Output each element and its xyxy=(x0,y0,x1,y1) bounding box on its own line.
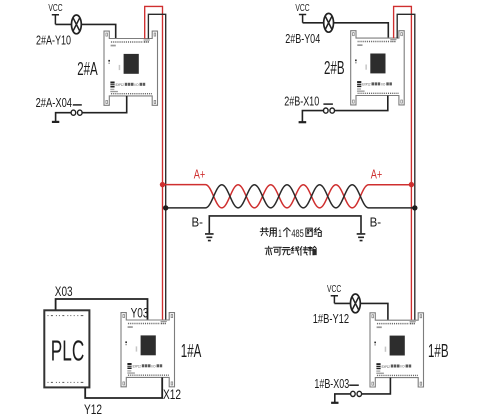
junction node B- right xyxy=(412,205,417,210)
svg-text:485: 485 xyxy=(291,228,303,240)
svg-text:X03: X03 xyxy=(55,284,73,299)
earth ground (right of shield) xyxy=(357,234,366,241)
junction node B- left xyxy=(163,205,168,210)
svg-text:1#A: 1#A xyxy=(181,340,202,361)
svg-text:2#A-X04: 2#A-X04 xyxy=(36,95,72,110)
ground (1#B-X03) xyxy=(331,402,338,404)
wire VCC to lamp 2#A-Y10 xyxy=(55,23,71,25)
svg-text:1#B: 1#B xyxy=(428,340,449,361)
earth ground (left of shield) xyxy=(205,234,214,241)
svg-text:Y12: Y12 xyxy=(84,402,102,417)
wire lamp to module 1#B terminal Y12 xyxy=(360,303,388,320)
wire RS485 B- from 2#B (black) down right bus xyxy=(397,14,415,320)
wire VCC to lamp 1#B-Y12 xyxy=(334,302,350,304)
svg-text:2#B-Y04: 2#B-Y04 xyxy=(285,31,320,46)
wire switch to module 2#B terminal X10 xyxy=(335,96,388,111)
wire PLC X03 to module 1#A terminal Y03 xyxy=(56,299,148,320)
I/O module 1#B xyxy=(370,313,424,387)
svg-text:A+: A+ xyxy=(371,168,383,182)
junction node A+ left xyxy=(160,182,165,187)
power VCC (bottom-right) xyxy=(327,284,341,304)
svg-text:A+: A+ xyxy=(194,168,206,182)
svg-text:1#B-X03: 1#B-X03 xyxy=(314,376,349,391)
svg-text:2#A-Y10: 2#A-Y10 xyxy=(36,32,71,47)
wire RS485 A+ from 2#A (red) down left bus xyxy=(145,6,163,320)
switch 2#B-X10 xyxy=(323,104,334,113)
svg-text:VCC: VCC xyxy=(327,284,341,295)
svg-text:1: 1 xyxy=(278,228,281,240)
switch 1#B-X03 xyxy=(349,385,361,396)
svg-text:B-: B- xyxy=(192,214,204,229)
wire switch to ground (1#B side) xyxy=(335,394,351,403)
wire switch to ground (left) xyxy=(56,113,71,122)
lamp 2#B-Y04 xyxy=(324,13,334,32)
note text: shared 485 network xyxy=(260,228,321,240)
svg-text:1#B-Y12: 1#B-Y12 xyxy=(313,311,349,326)
lamp 1#B-Y12 xyxy=(351,294,361,313)
wire switch to module 2#A terminal X04 xyxy=(82,96,127,113)
svg-text:2#B: 2#B xyxy=(324,57,345,78)
svg-text:VCC: VCC xyxy=(48,3,62,14)
power VCC (top-left) xyxy=(48,3,62,25)
twisted pair wire A+ (red) xyxy=(163,185,412,208)
twisted pair wire B- (black) xyxy=(166,185,415,208)
I/O module 2#B xyxy=(351,31,405,105)
I/O module 1#A xyxy=(121,313,175,387)
ground (2#B-X10) xyxy=(299,121,307,123)
PLC xyxy=(44,310,89,387)
wire switch to module 1#B terminal X03 xyxy=(362,378,391,394)
wire PLC Y12 to module 1#A terminal X12 xyxy=(85,377,162,398)
note text: or wireless transmission xyxy=(265,246,316,255)
svg-text:Y03: Y03 xyxy=(131,306,149,321)
power VCC (top-right) xyxy=(295,3,309,23)
svg-text:2#B-X10: 2#B-X10 xyxy=(284,93,319,108)
shield wire between grounds xyxy=(209,216,361,233)
svg-text:VCC: VCC xyxy=(295,3,309,14)
svg-text:B-: B- xyxy=(370,214,382,229)
lamp 2#A-Y10 xyxy=(72,15,82,34)
switch 2#A-X04 xyxy=(71,105,82,115)
junction node A+ right xyxy=(409,182,414,187)
wire switch to ground (2#B side) xyxy=(302,111,323,122)
ground (2#A-X04) xyxy=(52,121,59,123)
svg-text:PLC: PLC xyxy=(51,335,85,367)
wire lamp to module 2#B terminal Y04 xyxy=(334,23,389,38)
wire VCC to lamp 2#B-Y04 xyxy=(303,22,324,24)
I/O module 2#A xyxy=(104,31,158,105)
svg-text:2#A: 2#A xyxy=(77,58,98,79)
svg-text:X12: X12 xyxy=(163,387,181,402)
wire RS485 A+ from 2#B (red) down right bus xyxy=(394,6,412,320)
wire lamp to module 2#A terminal Y10 xyxy=(81,24,115,38)
wire RS485 B- from 2#A (black) down left bus xyxy=(148,14,165,320)
